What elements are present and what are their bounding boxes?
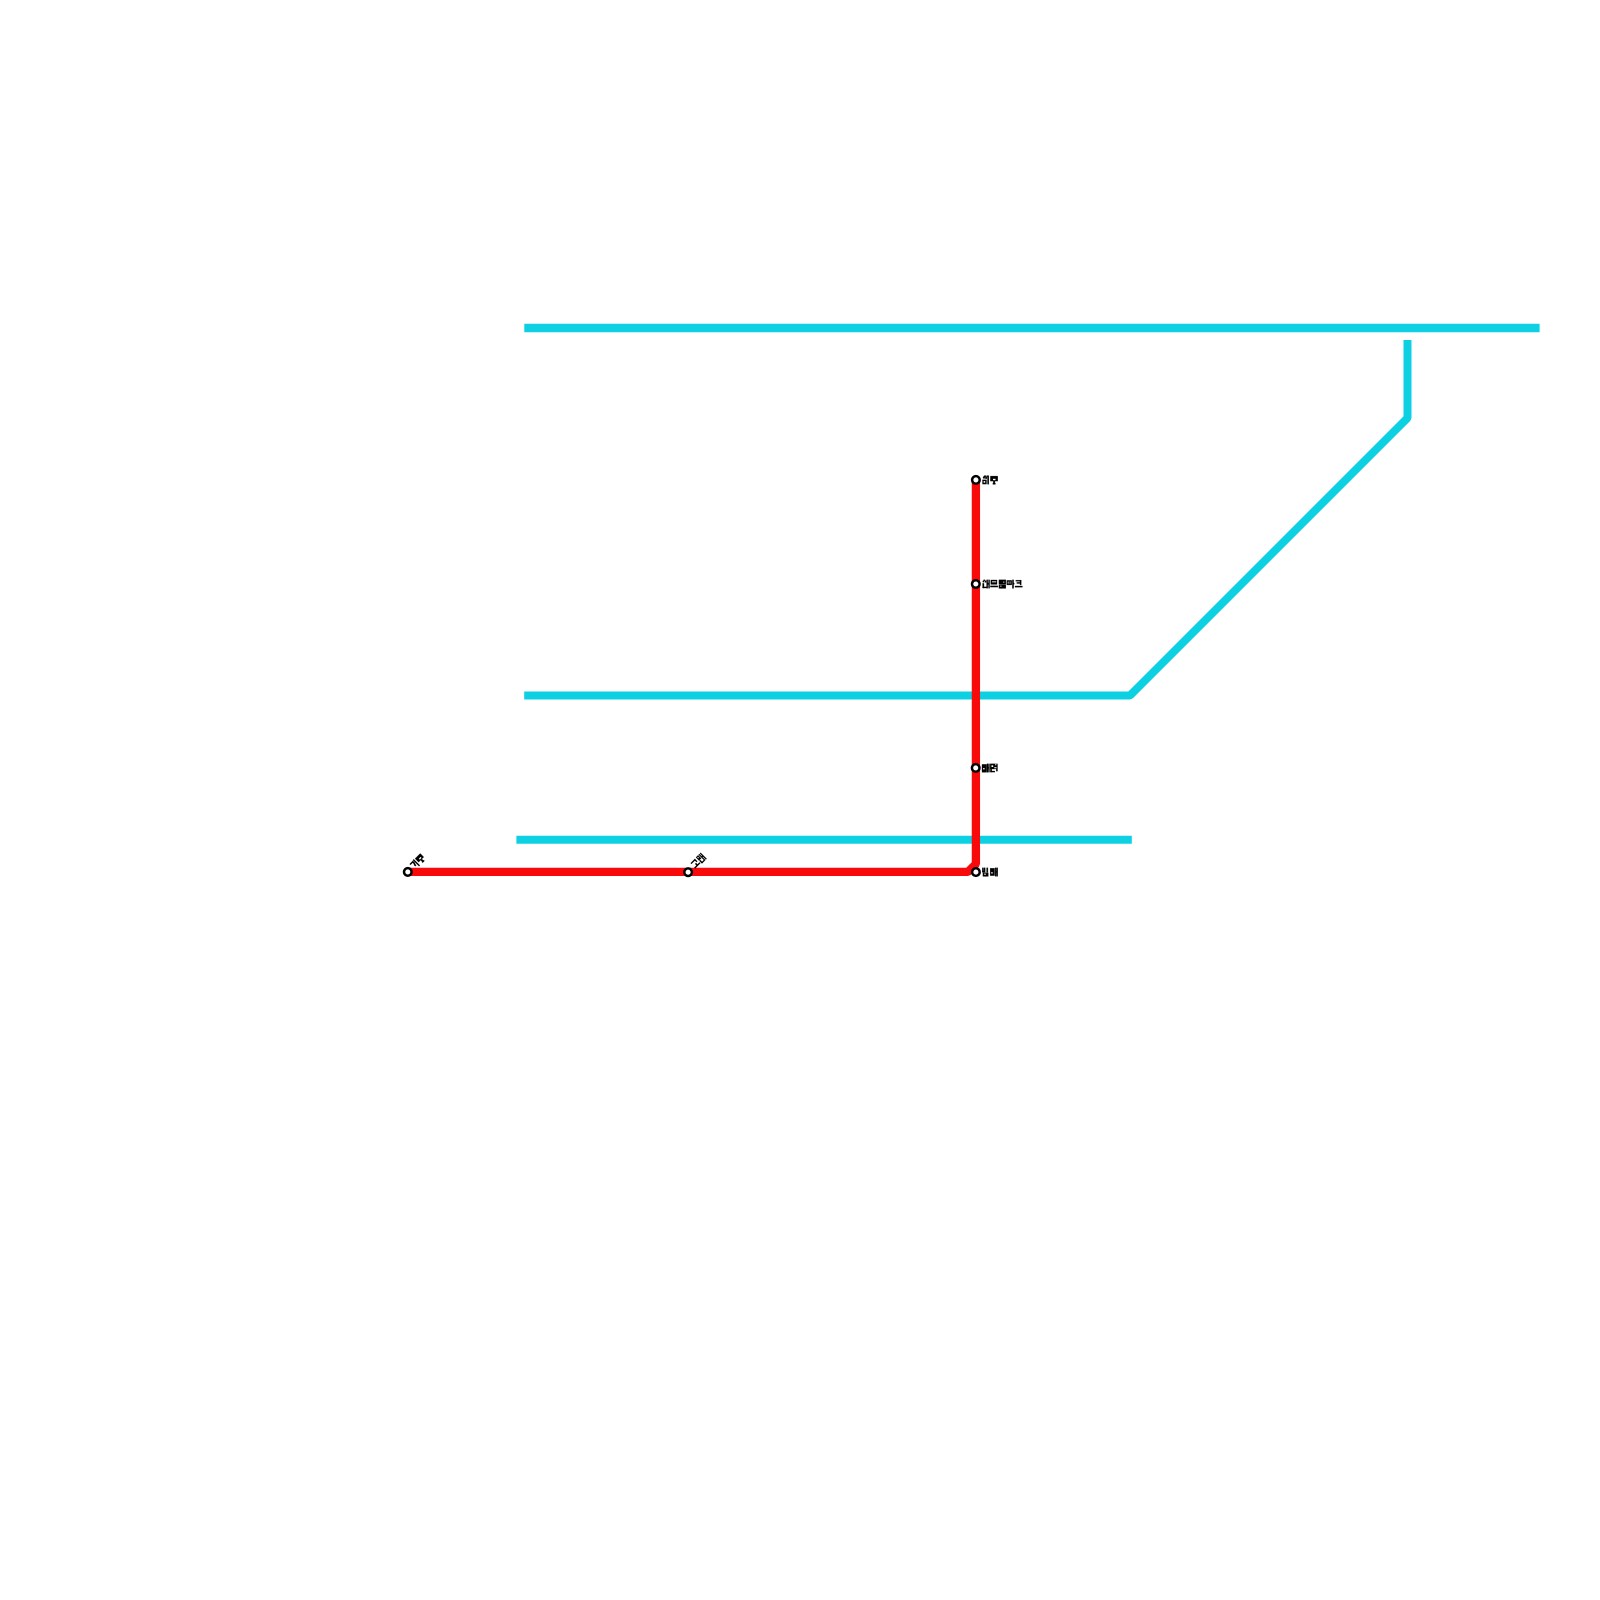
node: station Goban circle xyxy=(684,868,692,876)
label: 심주 xyxy=(983,476,998,485)
label: 고밴 (rotated 45) xyxy=(690,853,707,870)
wire: cyan metro line 2 (horizontal, diagonal, vertical stub) xyxy=(524,340,1407,696)
wire: red metro line xyxy=(408,479,976,872)
node: station Baewon circle xyxy=(972,764,980,772)
node: station Central Park circle xyxy=(972,580,980,588)
label: 배원 xyxy=(982,764,998,773)
label: 빌베 xyxy=(982,868,997,877)
wire: cyan metro line 1 (top horizontal) xyxy=(524,324,1539,333)
node: station Simju circle xyxy=(972,476,980,484)
node: station Bilbe circle xyxy=(972,868,980,876)
wire: cyan metro line 3 (short horizontal) xyxy=(516,836,1131,844)
node: station Giju circle xyxy=(404,868,412,876)
label: 기주 (rotated 45) xyxy=(409,853,426,870)
label: 센트럴파크 xyxy=(983,580,1023,589)
